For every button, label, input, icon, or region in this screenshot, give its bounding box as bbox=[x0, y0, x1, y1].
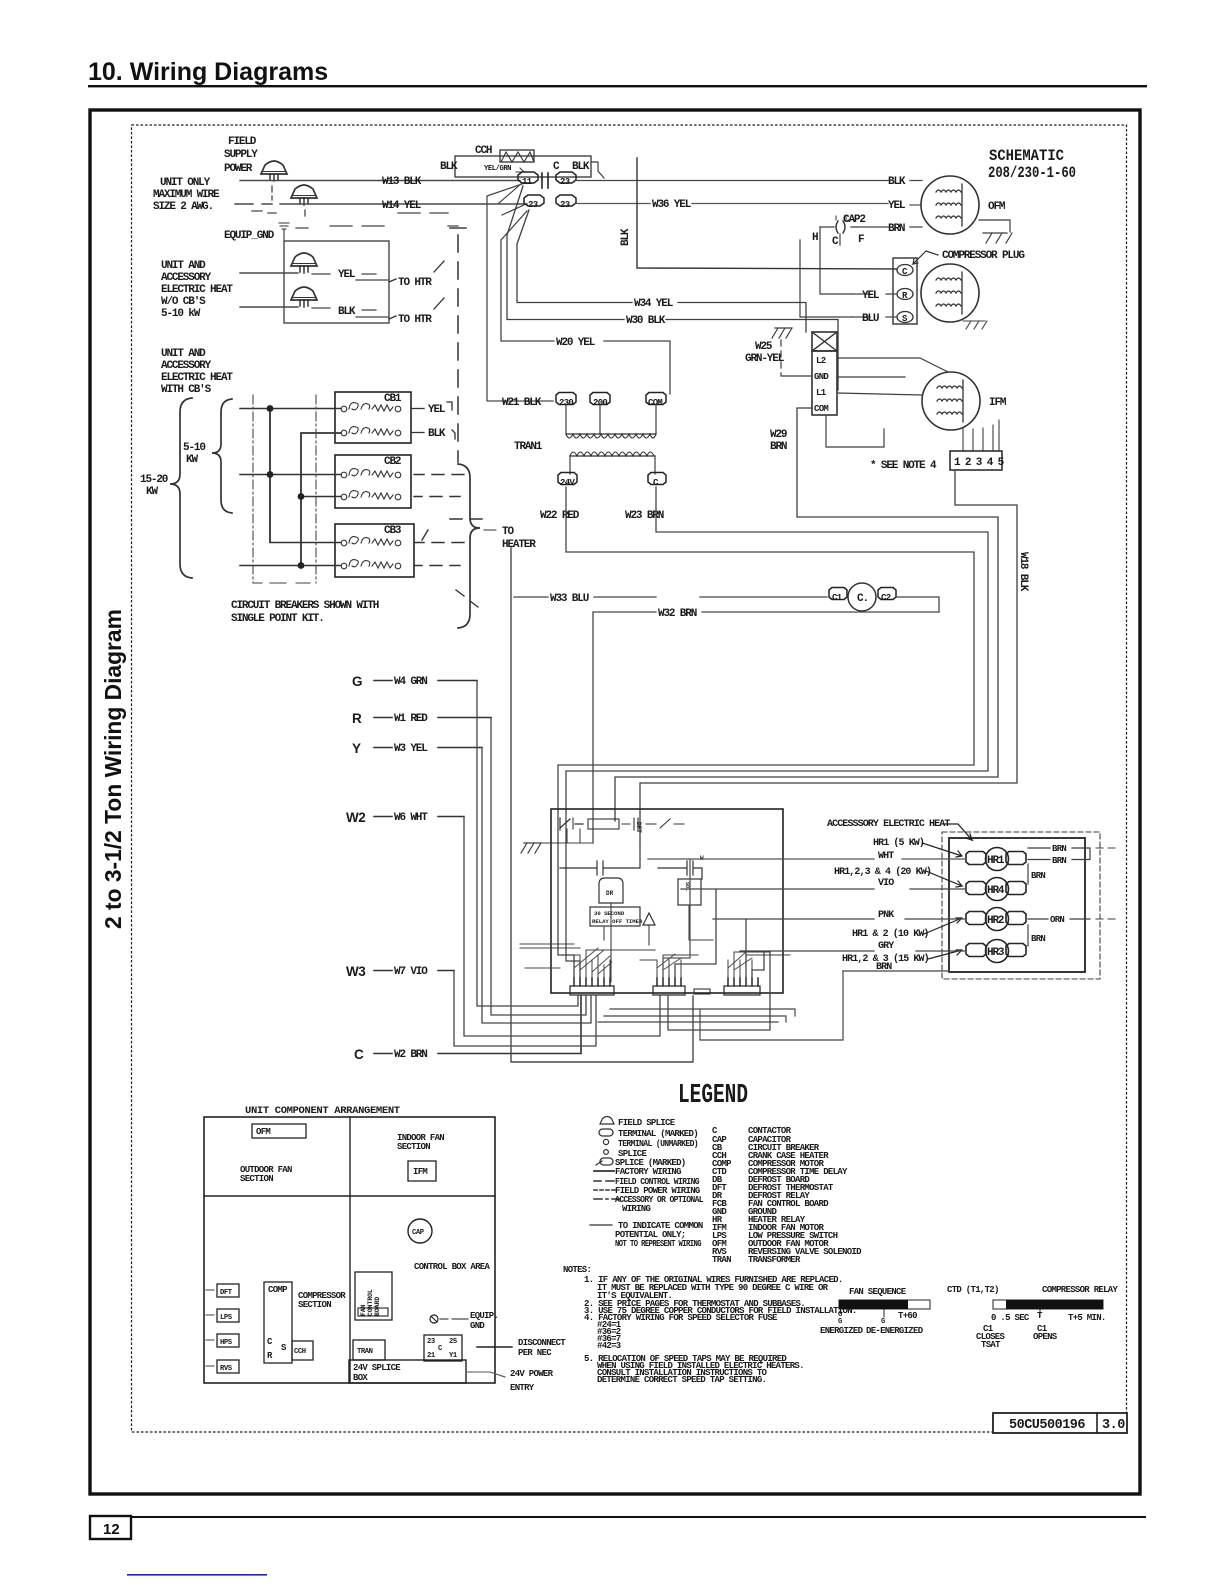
unit divider vertical bbox=[349, 1117, 351, 1383]
RVS box bbox=[217, 1360, 239, 1373]
svg-text:C2: C2 bbox=[881, 593, 891, 603]
svg-text:LEGEND: LEGEND bbox=[678, 1081, 748, 1111]
relay HR2 bbox=[966, 912, 1026, 925]
terminal block L2 GND L1 COM bbox=[812, 351, 837, 415]
wire from CCH BLK down-right bbox=[591, 162, 604, 178]
wire R bundle bbox=[491, 718, 586, 1016]
wire W14 YEL bbox=[235, 203, 527, 205]
wire W34 YEL bbox=[517, 210, 806, 332]
svg-text:10. Wiring Diagrams: 10. Wiring Diagrams bbox=[88, 58, 328, 86]
LPS box bbox=[217, 1309, 239, 1322]
svg-text:R: R bbox=[352, 711, 362, 726]
wire PNK to HR2 bbox=[713, 919, 966, 978]
svg-text:CONTROL BOX AREA: CONTROL BOX AREA bbox=[414, 1262, 491, 1272]
plug terminal C bbox=[897, 265, 913, 276]
svg-text:HR1,2,3 & 4 (20 KW): HR1,2,3 & 4 (20 KW) bbox=[834, 866, 931, 878]
svg-text:UNIT AND: UNIT AND bbox=[161, 260, 206, 272]
svg-text:SOL: SOL bbox=[684, 882, 690, 891]
vertical bus x=270 bbox=[269, 408, 271, 542]
terminal C bbox=[648, 473, 666, 485]
legend field power wiring symbol bbox=[594, 1189, 615, 1191]
dashed leaders to sensor boxes bbox=[206, 1290, 214, 1366]
svg-text:COM: COM bbox=[648, 398, 662, 408]
svg-text:YEL: YEL bbox=[428, 404, 446, 416]
DB relay coil 1 bbox=[599, 878, 623, 903]
wires into CB rows bbox=[240, 409, 341, 566]
wire RED 24v feed down bbox=[511, 548, 693, 1062]
wire Y bundle bbox=[482, 748, 591, 1024]
svg-text:* SEE NOTE 4: * SEE NOTE 4 bbox=[870, 460, 937, 472]
svg-text:BRN: BRN bbox=[1052, 844, 1066, 854]
field splice S2 bbox=[291, 185, 317, 205]
comp YEL wire bbox=[852, 293, 897, 295]
DB contact row bbox=[560, 818, 583, 830]
svg-text:BLK: BLK bbox=[338, 306, 356, 318]
svg-text:TO HTR: TO HTR bbox=[398, 314, 432, 326]
DB connector group 3 bbox=[724, 986, 760, 995]
wire into equip box BLK bbox=[240, 306, 298, 308]
plug terminal S bbox=[897, 312, 913, 323]
vertical BLK wire from CCH bbox=[637, 158, 897, 269]
svg-text:DFT: DFT bbox=[635, 822, 642, 833]
DB connector group 2 bbox=[653, 986, 685, 995]
svg-text:SECTION: SECTION bbox=[240, 1174, 273, 1184]
svg-text:L2: L2 bbox=[816, 356, 826, 366]
COM wire down to IFM bbox=[826, 415, 884, 447]
L2 wire to IFM bbox=[837, 358, 948, 372]
svg-text:DR: DR bbox=[606, 890, 614, 897]
svg-text:DE-ENERGIZED: DE-ENERGIZED bbox=[866, 1326, 924, 1336]
dashed wires CB2/CB3 to heater bracket bbox=[414, 475, 482, 608]
svg-text:W21 BLK: W21 BLK bbox=[502, 397, 542, 409]
comp ground bbox=[963, 321, 987, 329]
wire into equip box YEL bbox=[240, 272, 298, 274]
svg-text:FACTORY WIRING: FACTORY WIRING bbox=[615, 1167, 681, 1177]
svg-text:MAXIMUM WIRE: MAXIMUM WIRE bbox=[153, 189, 220, 201]
svg-text:RVS: RVS bbox=[220, 1365, 233, 1373]
wire W18 BLK loop bbox=[640, 470, 1017, 843]
L1 wire to IFM bbox=[837, 393, 922, 395]
svg-text:TRAN: TRAN bbox=[357, 1348, 373, 1356]
svg-text:CAP: CAP bbox=[412, 1229, 425, 1237]
equip gnd screw bbox=[430, 1315, 438, 1323]
svg-text:DETERMINE CORRECT SPEED TAP SE: DETERMINE CORRECT SPEED TAP SETTING. bbox=[597, 1375, 766, 1385]
svg-text:BLU: BLU bbox=[862, 313, 879, 325]
svg-text:21: 21 bbox=[427, 1352, 436, 1360]
wire left entries into board bbox=[520, 944, 580, 968]
svg-text:W33 BLU: W33 BLU bbox=[550, 593, 589, 605]
cap gap symbol bbox=[542, 173, 548, 188]
svg-text:BLK: BLK bbox=[440, 161, 458, 173]
svg-text:W22 RED: W22 RED bbox=[540, 510, 580, 522]
field splice S4 bbox=[291, 287, 317, 307]
defrost board DB outline bbox=[551, 809, 783, 993]
svg-text:Y: Y bbox=[352, 741, 361, 756]
svg-text:EQUIP_GND: EQUIP_GND bbox=[224, 230, 275, 242]
drawing number block bbox=[993, 1413, 1127, 1433]
svg-text:YEL/GRN: YEL/GRN bbox=[484, 165, 511, 173]
terminal 23c bbox=[556, 195, 576, 206]
svg-text:G: G bbox=[838, 1318, 842, 1326]
svg-text:DISCONNECT: DISCONNECT bbox=[518, 1338, 566, 1348]
HPS box bbox=[217, 1334, 239, 1347]
unit divider horizontal bbox=[204, 1195, 495, 1197]
svg-text:BLK: BLK bbox=[572, 161, 590, 173]
24v power entry bbox=[466, 1372, 505, 1377]
svg-text:H: H bbox=[812, 232, 818, 244]
svg-text:YEL: YEL bbox=[862, 290, 880, 302]
24v terminal box bbox=[424, 1335, 462, 1361]
svg-text:FAN SEQUENCE: FAN SEQUENCE bbox=[849, 1287, 907, 1297]
svg-text:BRN: BRN bbox=[1031, 871, 1045, 881]
svg-text:W1 RED: W1 RED bbox=[394, 713, 428, 725]
svg-text:24V SPLICE: 24V SPLICE bbox=[353, 1363, 401, 1373]
svg-text:C1: C1 bbox=[832, 593, 843, 603]
svg-text:5-10: 5-10 bbox=[183, 442, 205, 454]
wire W32 BRN bbox=[593, 612, 939, 843]
wire W33 BLU bbox=[514, 596, 827, 598]
svg-text:BLK: BLK bbox=[620, 228, 632, 246]
svg-text:UNIT ONLY: UNIT ONLY bbox=[160, 177, 211, 189]
DB connector group 1 bbox=[570, 986, 614, 995]
svg-text:HR1: HR1 bbox=[987, 855, 1005, 867]
svg-text:C: C bbox=[354, 1047, 364, 1062]
svg-text:W/O CB'S: W/O CB'S bbox=[161, 296, 206, 308]
dash-dot kit boundary right bbox=[315, 395, 317, 583]
unit arrangement outer box bbox=[204, 1117, 495, 1383]
svg-text:DFT: DFT bbox=[220, 1289, 233, 1297]
wire W3 bundle bbox=[454, 971, 596, 1047]
wire BRN to OFM bbox=[857, 226, 922, 228]
HR right side wires bbox=[1028, 848, 1090, 884]
svg-text:ORN: ORN bbox=[1050, 915, 1064, 925]
legend field splice symbol bbox=[600, 1117, 614, 1125]
svg-text:W29: W29 bbox=[770, 429, 787, 441]
svg-text:HEATER: HEATER bbox=[502, 539, 536, 551]
24V splice box bbox=[349, 1360, 466, 1383]
small gnd above EQUIP_GND bbox=[279, 223, 289, 241]
svg-text:GRN-YEL: GRN-YEL bbox=[745, 353, 785, 365]
svg-text:CB2: CB2 bbox=[384, 456, 401, 468]
svg-text:W3 YEL: W3 YEL bbox=[394, 743, 428, 755]
svg-text:BOX: BOX bbox=[353, 1373, 368, 1383]
terminal 200 bbox=[590, 393, 610, 405]
svg-text:W25: W25 bbox=[755, 341, 773, 353]
wire W36 YEL to OFM bbox=[576, 204, 920, 206]
svg-text:W3: W3 bbox=[346, 964, 366, 979]
svg-text:CB1: CB1 bbox=[384, 393, 402, 405]
wire VIO to HR4 bbox=[675, 889, 966, 978]
svg-text:CIRCUIT BREAKERS SHOWN WITH: CIRCUIT BREAKERS SHOWN WITH bbox=[231, 600, 379, 612]
svg-text:NOTES:: NOTES: bbox=[563, 1265, 591, 1275]
svg-text:SECTION: SECTION bbox=[397, 1142, 430, 1152]
svg-text:SCHEMATIC: SCHEMATIC bbox=[989, 147, 1064, 165]
svg-text:ENERGIZED: ENERGIZED bbox=[820, 1326, 864, 1336]
svg-text:FAN: FAN bbox=[360, 1304, 367, 1316]
svg-text:UNIT COMPONENT ARRANGEMENT: UNIT COMPONENT ARRANGEMENT bbox=[245, 1105, 400, 1117]
svg-text:COMPRESSOR PLUG: COMPRESSOR PLUG bbox=[942, 250, 1025, 262]
svg-text:#42=3: #42=3 bbox=[597, 1341, 621, 1351]
brace 15-20 KW bbox=[170, 398, 192, 578]
svg-text:23: 23 bbox=[528, 200, 538, 210]
terminal 23a bbox=[556, 172, 576, 183]
wire WHT to HR1 bbox=[648, 859, 966, 978]
svg-text:NOT TO REPRESENT WIRING: NOT TO REPRESENT WIRING bbox=[615, 1239, 701, 1249]
legend accessory wiring symbol bbox=[594, 1198, 620, 1200]
svg-text:W6 WHT: W6 WHT bbox=[394, 812, 428, 824]
svg-text:TERMINAL (UNMARKED): TERMINAL (UNMARKED) bbox=[618, 1139, 698, 1149]
DFT box bbox=[217, 1284, 239, 1297]
svg-text:SINGLE POINT KIT.: SINGLE POINT KIT. bbox=[231, 613, 324, 625]
svg-text:PER NEC: PER NEC bbox=[518, 1348, 552, 1358]
svg-text:IFM: IFM bbox=[989, 397, 1007, 409]
terminal C1 bbox=[829, 588, 847, 600]
svg-text:ACCESSORY: ACCESSORY bbox=[161, 360, 212, 372]
svg-text:W32 BRN: W32 BRN bbox=[658, 608, 697, 620]
wire W13 BLK bbox=[240, 180, 520, 182]
svg-text:CCH: CCH bbox=[475, 145, 492, 157]
legend common potential symbol bbox=[590, 1224, 612, 1226]
blue footer underline bbox=[127, 1574, 267, 1576]
svg-text:HR1 (5 KW): HR1 (5 KW) bbox=[873, 837, 924, 849]
terminal 230 bbox=[556, 393, 576, 405]
svg-text:W23 BRN: W23 BRN bbox=[625, 510, 664, 522]
page number box bbox=[90, 1516, 131, 1539]
DB capacitor 1 bbox=[560, 843, 640, 875]
svg-text:50CU500196: 50CU500196 bbox=[1009, 1418, 1085, 1433]
speed tap strip 1 2 3 4 5 bbox=[950, 451, 1002, 470]
svg-text:23: 23 bbox=[427, 1338, 435, 1346]
svg-text:24V: 24V bbox=[560, 478, 575, 488]
svg-text:G: G bbox=[352, 674, 362, 689]
svg-text:G: G bbox=[881, 1318, 885, 1326]
svg-text:1 2 3 4 5: 1 2 3 4 5 bbox=[954, 457, 1005, 469]
GND wire bbox=[837, 376, 905, 378]
svg-text:OPENS: OPENS bbox=[1033, 1332, 1058, 1342]
IFM leads to speed strip bbox=[963, 420, 999, 451]
svg-text:CCH: CCH bbox=[294, 1348, 306, 1356]
legend terminal marked symbol bbox=[599, 1129, 613, 1136]
svg-text:T+60: T+60 bbox=[898, 1311, 917, 1321]
terminal 23b bbox=[524, 195, 544, 206]
svg-text:WHT: WHT bbox=[878, 851, 894, 862]
svg-text:24V POWER: 24V POWER bbox=[510, 1369, 554, 1379]
svg-text:COMPRESSOR RELAY: COMPRESSOR RELAY bbox=[1042, 1285, 1119, 1295]
CAP circle bbox=[408, 1219, 432, 1243]
svg-text:BRN: BRN bbox=[770, 441, 787, 453]
svg-text:WIRING: WIRING bbox=[622, 1204, 651, 1214]
legend factory wiring symbol bbox=[594, 1170, 614, 1172]
wire C2 return bbox=[896, 597, 939, 612]
svg-text:ACCESSORY: ACCESSORY bbox=[161, 272, 212, 284]
svg-text:VIO: VIO bbox=[878, 878, 894, 889]
compressor plug box bbox=[893, 258, 917, 324]
wire W20 YEL bbox=[501, 211, 670, 394]
svg-text:15-20: 15-20 bbox=[140, 474, 168, 486]
wire top right BLK to OFM bbox=[576, 180, 922, 182]
svg-text:TRAN1: TRAN1 bbox=[514, 441, 543, 453]
field splice S1 bbox=[261, 161, 287, 181]
svg-text:KW: KW bbox=[146, 486, 158, 498]
crossed box above block bbox=[812, 332, 837, 351]
svg-text:UNIT AND: UNIT AND bbox=[161, 348, 206, 360]
svg-text:SUPPLY: SUPPLY bbox=[224, 149, 258, 161]
DB capacitor 2 bbox=[658, 861, 702, 879]
page number line bbox=[90, 1516, 1146, 1518]
ground under OFM bbox=[983, 233, 1012, 243]
svg-text:BLK: BLK bbox=[428, 428, 446, 440]
relay HR4 bbox=[966, 882, 1026, 895]
IFM box bbox=[408, 1161, 436, 1181]
TO HEATER bracket bbox=[458, 464, 480, 628]
svg-text:FIELD SPLICE: FIELD SPLICE bbox=[618, 1118, 676, 1128]
outer border frame bbox=[90, 110, 1140, 1494]
dashed stubs under splices bbox=[272, 186, 384, 228]
IFM motor bbox=[922, 372, 980, 430]
svg-text:HR4: HR4 bbox=[987, 885, 1005, 897]
svg-text:30 SECOND: 30 SECOND bbox=[594, 910, 625, 917]
terminal COM bbox=[646, 393, 666, 405]
wire W30 BLK bbox=[507, 186, 838, 390]
svg-text:W14 YEL: W14 YEL bbox=[382, 200, 422, 212]
YEL hook from CB1 bbox=[411, 408, 424, 410]
svg-text:C.: C. bbox=[857, 593, 868, 605]
svg-text:BRN: BRN bbox=[1052, 856, 1066, 866]
svg-text:W13 BLK: W13 BLK bbox=[382, 176, 422, 188]
wire W22 RED loop bbox=[558, 487, 974, 978]
svg-text:TSAT: TSAT bbox=[981, 1340, 1001, 1350]
svg-text:W34 YEL: W34 YEL bbox=[634, 298, 674, 310]
svg-text:RELAY OFF TIMER: RELAY OFF TIMER bbox=[592, 918, 643, 925]
svg-text:TO HTR: TO HTR bbox=[398, 277, 432, 289]
svg-text:EQUIP.: EQUIP. bbox=[470, 1311, 498, 1321]
svg-text:ACCESSSORY ELECTRIC HEAT: ACCESSSORY ELECTRIC HEAT bbox=[827, 819, 950, 830]
OFM box bbox=[252, 1124, 306, 1138]
junction dots bbox=[267, 405, 274, 412]
wire GRY to HR3 bbox=[740, 951, 966, 978]
terminal C2 bbox=[878, 588, 896, 600]
svg-text:HR2: HR2 bbox=[987, 915, 1004, 927]
svg-text:W30 BLK: W30 BLK bbox=[626, 315, 666, 327]
wire fan crossings above connectors bbox=[574, 948, 752, 974]
svg-text:ENTRY: ENTRY bbox=[510, 1383, 535, 1393]
svg-text:FIELD: FIELD bbox=[228, 136, 257, 148]
svg-text:L1: L1 bbox=[816, 388, 827, 398]
lower interconnect wires bbox=[598, 971, 843, 1040]
svg-text:23: 23 bbox=[560, 177, 570, 187]
svg-text:W7 VIO: W7 VIO bbox=[394, 966, 428, 978]
svg-text:SECTION: SECTION bbox=[298, 1300, 331, 1310]
ground W25 GRN-YEL bbox=[772, 328, 792, 338]
legend abbreviation table bbox=[712, 1126, 862, 1265]
DB triangle bbox=[643, 913, 655, 925]
svg-text:OFM: OFM bbox=[988, 201, 1006, 213]
legend splice marked symbol bbox=[600, 1158, 613, 1165]
terminal 11 bbox=[518, 172, 538, 183]
COMP box bbox=[264, 1282, 292, 1363]
svg-text:11: 11 bbox=[522, 177, 533, 187]
svg-text:BLK: BLK bbox=[888, 176, 906, 188]
svg-text:TRANSFORMER: TRANSFORMER bbox=[748, 1255, 801, 1265]
svg-text:W20 YEL: W20 YEL bbox=[556, 337, 596, 349]
arrows joining terminals bbox=[499, 183, 524, 215]
svg-text:2 to 3-1/2 Ton Wiring Diagram: 2 to 3-1/2 Ton Wiring Diagram bbox=[100, 609, 126, 929]
svg-text:0 .5 SEC: 0 .5 SEC bbox=[991, 1313, 1030, 1323]
wire CAP2 H vertical + YEL/BLU feeds bbox=[800, 240, 852, 317]
circuit breaker CB3 bbox=[335, 524, 414, 577]
circuit breaker CB2 bbox=[335, 455, 411, 508]
OFM motor bbox=[921, 176, 979, 234]
BLK hook from CB1 bbox=[411, 432, 424, 434]
svg-text:TO: TO bbox=[502, 526, 514, 538]
relay HR3 bbox=[966, 944, 1026, 957]
svg-text:CB3: CB3 bbox=[384, 525, 402, 537]
svg-text:W2 BRN: W2 BRN bbox=[394, 1049, 427, 1061]
vertical bus x=301 bbox=[301, 433, 341, 566]
svg-text:BRN: BRN bbox=[1031, 934, 1045, 944]
svg-text:W36 YEL: W36 YEL bbox=[652, 199, 692, 211]
svg-text:25: 25 bbox=[449, 1338, 457, 1346]
dashed boundary vertical right of equip area bbox=[450, 228, 466, 462]
svg-text:208/230-1-60: 208/230-1-60 bbox=[988, 164, 1076, 182]
svg-text:YEL: YEL bbox=[888, 200, 906, 212]
legend field control wiring symbol bbox=[594, 1180, 614, 1182]
svg-text:W2: W2 bbox=[346, 810, 365, 825]
svg-text:KW: KW bbox=[186, 454, 198, 466]
svg-text:ELECTRIC HEAT: ELECTRIC HEAT bbox=[161, 284, 233, 296]
svg-text:23: 23 bbox=[560, 200, 570, 210]
plug terminal R bbox=[897, 289, 913, 300]
svg-text:GND: GND bbox=[470, 1321, 485, 1331]
legend splice symbol bbox=[604, 1150, 609, 1155]
equip gnd box bbox=[284, 241, 389, 323]
svg-text:OFM: OFM bbox=[256, 1127, 270, 1137]
disconnect per nec bbox=[477, 1346, 512, 1348]
svg-text:5-10 kW: 5-10 kW bbox=[161, 308, 201, 320]
terminal 24V bbox=[558, 473, 577, 485]
svg-text:LPS: LPS bbox=[220, 1314, 233, 1322]
svg-text:SIZE 2 AWG.: SIZE 2 AWG. bbox=[153, 201, 213, 213]
svg-text:YEL: YEL bbox=[338, 269, 356, 281]
heat relay dashed box bbox=[942, 832, 1100, 979]
dash-dot kit boundary left bbox=[252, 395, 254, 583]
CCH resistor element bbox=[500, 150, 534, 162]
svg-text:F: F bbox=[858, 234, 864, 246]
svg-text:W4 GRN: W4 GRN bbox=[394, 676, 427, 688]
DB relay coil 2 bbox=[678, 879, 701, 905]
wire G bundle bbox=[477, 681, 578, 1007]
svg-text:HR3: HR3 bbox=[987, 947, 1005, 959]
svg-text:W18 BLK: W18 BLK bbox=[1017, 552, 1029, 592]
OFM ground lead bbox=[979, 220, 1010, 232]
svg-text:CONTROL: CONTROL bbox=[367, 1289, 374, 1316]
svg-text:TRAN: TRAN bbox=[712, 1255, 731, 1265]
relay HR1 bbox=[966, 852, 1026, 865]
svg-text:HR1 & 2 (10 KW): HR1 & 2 (10 KW) bbox=[852, 928, 929, 940]
svg-text:HPS: HPS bbox=[220, 1339, 233, 1347]
svg-text:GND: GND bbox=[814, 372, 829, 382]
wire BRN lower bbox=[668, 951, 949, 1030]
wire W23 BRN loop bbox=[566, 487, 988, 978]
DB tag bbox=[694, 989, 710, 994]
DB timer box 30 SECOND RELAY OFF TIMER bbox=[590, 907, 640, 926]
svg-text:3.0: 3.0 bbox=[1102, 1418, 1125, 1433]
svg-text:WITH CB'S: WITH CB'S bbox=[161, 384, 212, 396]
wire W29 BRN loop bbox=[615, 408, 998, 821]
svg-text:ELECTRIC HEAT: ELECTRIC HEAT bbox=[161, 372, 233, 384]
legend terminal unmarked symbol bbox=[603, 1139, 608, 1144]
circuit breaker CB1 bbox=[335, 392, 411, 443]
